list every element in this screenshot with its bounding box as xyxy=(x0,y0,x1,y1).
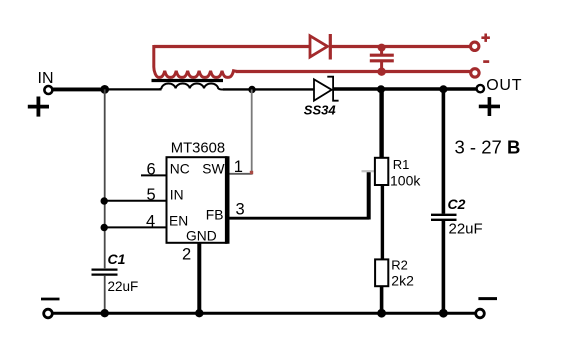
wire: red secondary bottom rail xyxy=(236,70,470,73)
junction: C2 bottom node xyxy=(439,309,448,318)
svg-text:SW: SW xyxy=(202,161,224,176)
terminal: IN minus xyxy=(41,299,60,318)
wire: FB vertical jog xyxy=(367,171,371,220)
wire: SW vertical xyxy=(251,90,253,175)
junction: SW node xyxy=(248,86,255,93)
svg-text:R1: R1 xyxy=(393,157,410,172)
capacitor C1 xyxy=(92,251,139,313)
diode D1 SS34 xyxy=(304,77,339,118)
svg-text:C1: C1 xyxy=(108,251,126,267)
inductor core bar xyxy=(152,79,224,82)
svg-text:1: 1 xyxy=(234,158,243,176)
svg-text:100k: 100k xyxy=(390,172,421,188)
junction: R1 top node xyxy=(377,85,385,93)
svg-text:6: 6 xyxy=(147,161,156,179)
capacitor C2 xyxy=(431,196,483,238)
svg-text:2k2: 2k2 xyxy=(391,272,414,288)
artifact: red corner pixel at SW bend xyxy=(250,171,253,174)
pin 4 stub (EN) xyxy=(105,213,167,231)
terminal: OUT xyxy=(477,77,523,94)
pin 5 stub (IN) xyxy=(105,186,167,204)
terminal: red + output xyxy=(471,34,490,51)
svg-text:R2: R2 xyxy=(391,258,408,273)
svg-text:3 - 27 В: 3 - 27 В xyxy=(455,137,521,158)
svg-text:22uF: 22uF xyxy=(108,279,139,294)
pin 3 stub (FB) xyxy=(230,201,370,219)
junction: R2 bottom node xyxy=(377,309,386,318)
pin 2 stub (GND) xyxy=(182,243,199,313)
resistor R1 xyxy=(375,157,421,188)
terminal: IN xyxy=(38,70,54,94)
svg-text:FB: FB xyxy=(206,207,224,222)
svg-text:GND: GND xyxy=(186,229,217,244)
svg-text:OUT: OUT xyxy=(486,77,522,94)
resistor R2 xyxy=(375,258,414,289)
junction: pin4 node xyxy=(101,224,108,231)
junction: C2 top node xyxy=(439,85,447,93)
wire: bottom rail xyxy=(52,312,476,315)
wire: top rail inductor to diode xyxy=(223,88,314,90)
svg-text:IN: IN xyxy=(170,188,184,203)
wire: top rail to inductor xyxy=(105,88,162,90)
terminal: red − output xyxy=(471,62,490,78)
svg-text:MT3608: MT3608 xyxy=(171,141,225,157)
svg-text:NC: NC xyxy=(170,161,190,176)
svg-text:EN: EN xyxy=(169,214,188,229)
wire: divider top xyxy=(379,89,383,158)
polarity: IN plus xyxy=(28,97,49,117)
junction: C1 bottom node xyxy=(101,309,109,317)
svg-text:3: 3 xyxy=(236,201,245,219)
wire: C2 branch top xyxy=(442,89,446,214)
junction: red cap top xyxy=(378,44,386,52)
wire: top rail diode to OUT xyxy=(334,87,477,90)
wire: divider bottom xyxy=(380,286,384,313)
svg-text:2: 2 xyxy=(182,246,191,264)
wire: left vertical IN branch xyxy=(104,89,106,268)
inductor L1 xyxy=(153,84,225,90)
junction: IN node xyxy=(100,85,109,94)
pin 6 stub (NC) xyxy=(141,161,167,179)
svg-text:IN: IN xyxy=(38,70,54,87)
svg-text:C2: C2 xyxy=(448,196,466,212)
terminal: OUT minus xyxy=(476,299,497,318)
junction: pin5 node xyxy=(101,197,108,204)
svg-text:4: 4 xyxy=(146,213,155,231)
pin 1 stub (SW) xyxy=(230,158,253,176)
svg-text:5: 5 xyxy=(147,186,156,204)
capacitor C3 (red output capacitor) xyxy=(370,47,394,72)
svg-text:SS34: SS34 xyxy=(304,102,337,117)
junction: red cap bottom xyxy=(377,68,385,76)
IC U1 MT3608 xyxy=(167,141,228,244)
wire: C2 branch bottom xyxy=(442,221,446,313)
inductor L2 (red secondary winding) xyxy=(154,45,237,77)
wire: red secondary top rail xyxy=(154,45,470,48)
wire: divider middle xyxy=(381,185,384,260)
wire: top rail IN segment xyxy=(53,87,107,91)
svg-text:22uF: 22uF xyxy=(449,221,483,238)
wire: faint link to R1 xyxy=(362,170,376,172)
polarity: OUT plus xyxy=(479,97,500,116)
diode D2 (red flyback diode) xyxy=(310,34,330,60)
junction: GND bottom node xyxy=(195,309,203,317)
